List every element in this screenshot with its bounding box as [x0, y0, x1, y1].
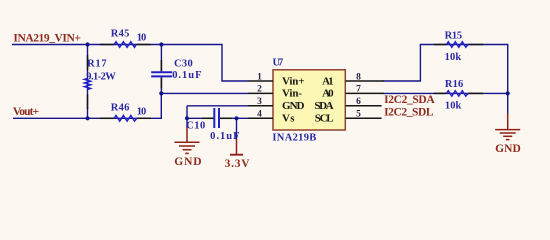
svg-text:10: 10: [137, 107, 147, 118]
svg-text:0.1uF: 0.1uF: [210, 131, 240, 142]
svg-text:Vin+: Vin+: [282, 75, 305, 87]
svg-text:R16: R16: [445, 79, 463, 90]
svg-text:SDA: SDA: [314, 100, 333, 112]
svg-text:3: 3: [257, 97, 262, 107]
svg-text:5: 5: [356, 110, 361, 120]
svg-text:R17: R17: [87, 59, 107, 70]
svg-text:R15: R15: [445, 31, 463, 42]
svg-text:GND: GND: [174, 156, 201, 168]
svg-text:0.1uF: 0.1uF: [172, 70, 201, 81]
svg-text:A1: A1: [322, 75, 334, 87]
svg-text:10k: 10k: [445, 100, 462, 111]
svg-text:7: 7: [356, 85, 361, 95]
svg-text:4: 4: [257, 110, 262, 120]
svg-text:C10: C10: [186, 121, 205, 132]
svg-text:INA219_VIN+: INA219_VIN+: [13, 33, 81, 45]
svg-text:A0: A0: [322, 88, 334, 100]
svg-text:GND: GND: [495, 143, 521, 155]
svg-text:9.1-2W: 9.1-2W: [86, 72, 116, 83]
svg-text:R45: R45: [111, 29, 130, 40]
svg-text:SCL: SCL: [315, 113, 334, 125]
svg-text:Vout+: Vout+: [13, 106, 39, 118]
svg-text:8: 8: [356, 72, 361, 82]
svg-text:Vs: Vs: [282, 113, 295, 125]
svg-text:2: 2: [257, 85, 262, 95]
svg-text:C30: C30: [174, 58, 193, 69]
svg-text:10k: 10k: [445, 52, 462, 63]
svg-text:Vin-: Vin-: [282, 88, 302, 100]
svg-text:I2C2_SDA: I2C2_SDA: [384, 94, 435, 106]
svg-text:GND: GND: [282, 100, 305, 112]
svg-text:1: 1: [257, 72, 262, 82]
svg-text:3.3V: 3.3V: [225, 158, 251, 170]
svg-text:I2C2_SDL: I2C2_SDL: [384, 107, 434, 119]
svg-text:6: 6: [356, 97, 361, 107]
svg-text:U7: U7: [273, 58, 284, 69]
svg-text:R46: R46: [111, 103, 130, 114]
svg-text:10: 10: [137, 33, 147, 44]
svg-text:INA219B: INA219B: [272, 132, 316, 143]
